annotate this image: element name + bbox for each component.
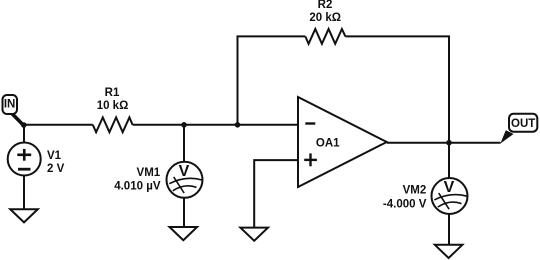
ground for non-inverting input — [240, 228, 268, 241]
svg-text:10 kΩ: 10 kΩ — [97, 100, 129, 112]
ground for VM2 — [435, 245, 463, 258]
voltage source V1 — [8, 143, 41, 176]
node C junction feedback — [235, 122, 241, 128]
wire VM1 branch — [183, 125, 185, 227]
node D junction output — [446, 140, 452, 146]
svg-text:VM1: VM1 — [137, 167, 161, 179]
svg-text:VM2: VM2 — [403, 185, 427, 197]
wire non-inverting input — [254, 160, 298, 228]
svg-text:R2: R2 — [318, 0, 333, 11]
wire main input horizontal — [24, 124, 298, 126]
V1 value label — [47, 150, 65, 175]
node B junction R1/VM1 — [181, 122, 187, 128]
R2 value label — [309, 0, 341, 24]
svg-text:R1: R1 — [105, 87, 120, 99]
wire feedback top — [238, 36, 450, 142]
svg-text:2 V: 2 V — [47, 163, 65, 175]
wire V1 branch — [23, 125, 25, 209]
voltmeter VM1 — [167, 162, 203, 198]
node OUT flag — [500, 114, 537, 144]
svg-text:IN: IN — [4, 99, 16, 111]
svg-text:4.010 µV: 4.010 µV — [114, 180, 161, 192]
node A junction input — [21, 122, 27, 128]
resistor R2 — [305, 29, 345, 44]
svg-text:V1: V1 — [47, 150, 62, 162]
wire output — [387, 142, 501, 144]
svg-text:OA1: OA1 — [316, 137, 340, 149]
op-amp OA1 — [298, 97, 387, 187]
svg-text:20 kΩ: 20 kΩ — [309, 12, 341, 24]
wire VM2 branch — [448, 143, 450, 245]
svg-text:-4.000 V: -4.000 V — [383, 198, 427, 210]
ground for VM1 — [170, 227, 198, 240]
node IN flag — [3, 95, 24, 125]
resistor R1 — [93, 117, 133, 132]
ground for V1 — [10, 209, 38, 222]
R1 value label — [97, 87, 129, 112]
svg-text:OUT: OUT — [511, 118, 535, 130]
voltmeter VM2 — [432, 178, 468, 214]
VM2 value label — [383, 185, 427, 211]
VM1 value label — [114, 167, 161, 192]
